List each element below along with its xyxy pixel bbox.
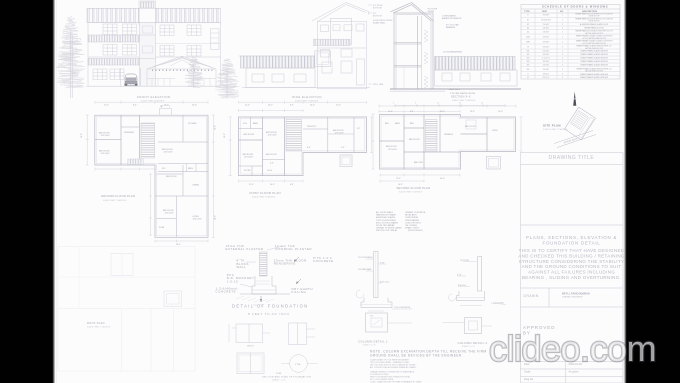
svg-text:BED ROOM: BED ROOM <box>409 139 420 141</box>
svg-text:10'-0": 10'-0" <box>192 105 197 107</box>
svg-text:4'0"x6'6": 4'0"x6'6" <box>543 37 550 39</box>
svg-text:12'0"x10'0": 12'0"x10'0" <box>268 135 278 137</box>
svg-text:RENDERING: RENDERING <box>274 262 296 266</box>
svg-text:3: 3 <box>562 24 563 26</box>
svg-text:1: 1 <box>562 20 563 22</box>
svg-text:EXTERNAL PLASTER: EXTERNAL PLASTER <box>226 247 264 251</box>
svg-text:D1: D1 <box>527 20 529 22</box>
svg-text:BALCONY: BALCONY <box>414 161 424 164</box>
svg-text:32: 32 <box>481 103 483 105</box>
svg-text:Dwg No: Dwg No <box>524 377 534 381</box>
svg-text:SIZE: SIZE <box>542 11 547 13</box>
svg-text:FOUNDATION DETAIL: FOUNDATION DETAIL <box>543 241 601 246</box>
svg-text:12'0"x10'0": 12'0"x10'0" <box>388 149 398 151</box>
svg-text:14'0"x12'0": 14'0"x12'0" <box>193 219 203 221</box>
svg-text:9"x9": 9"x9" <box>457 275 462 277</box>
svg-text:HARDWOOD FRAME: HARDWOOD FRAME <box>376 214 396 217</box>
svg-text:12'0"x10'0": 12'0"x10'0" <box>164 152 174 154</box>
svg-text:16'-0": 16'-0" <box>176 244 181 246</box>
svg-text:ROOM TINT AREAS: ROOM TINT AREAS <box>376 224 395 227</box>
svg-text:14'-0": 14'-0" <box>215 215 217 220</box>
svg-text:EVERYDAY GLAZED: EVERYDAY GLAZED <box>376 216 396 219</box>
svg-text:TERRACE: TERRACE <box>444 133 454 136</box>
svg-text:DETAIL OF FOUNDATION: DETAIL OF FOUNDATION <box>232 304 309 309</box>
svg-text:6'0"x6'6": 6'0"x6'6" <box>543 42 550 44</box>
svg-text:10'-0": 10'-0" <box>268 105 273 107</box>
svg-text:EXCL FLOOR & WATER: EXCL FLOOR & WATER <box>376 221 399 224</box>
svg-text:2: 2 <box>562 77 563 79</box>
svg-text:1 IN 60 RENDERING: 1 IN 60 RENDERING <box>443 52 462 54</box>
svg-text:clideo.com: clideo.com <box>489 328 656 369</box>
svg-text:W2: W2 <box>527 54 530 56</box>
svg-text:2'0"x4'6": 2'0"x4'6" <box>543 69 550 71</box>
svg-text:12'0"x10'0": 12'0"x10'0" <box>101 153 111 155</box>
svg-text:OPEN: OPEN <box>492 130 498 132</box>
svg-text:WIDTH: WIDTH <box>247 346 254 348</box>
svg-text:INTERNAL PLASTER: INTERNAL PLASTER <box>275 247 312 251</box>
svg-text:D2: D2 <box>527 24 529 26</box>
svg-text:2: 2 <box>562 42 563 44</box>
svg-text:8'-0": 8'-0" <box>290 105 294 107</box>
svg-text:As given: As given <box>569 370 580 374</box>
svg-text:SCHEDULE OF DOORS & WINDOWS: SCHEDULE OF DOORS & WINDOWS <box>542 5 608 9</box>
svg-text:OVER ON TOP: OVER ON TOP <box>588 21 599 23</box>
svg-text:8'-0": 8'-0" <box>410 111 414 113</box>
svg-text:10'-0": 10'-0" <box>81 133 83 138</box>
svg-text:STRUCTURE CONSIDERING THE STAB: STRUCTURE CONSIDERING THE STABILITY <box>519 259 625 264</box>
svg-text:2: 2 <box>562 28 563 30</box>
svg-text:TYPE: TYPE <box>524 11 530 13</box>
svg-text:2'6"x6'6": 2'6"x6'6" <box>543 28 550 30</box>
svg-text:CONCRETE: CONCRETE <box>313 259 334 263</box>
svg-text:4'0"x4': 4'0"x4' <box>267 170 273 172</box>
svg-text:ALL DOOR SHALL: ALL DOOR SHALL <box>376 211 394 214</box>
svg-text:PUJA: PUJA <box>159 226 165 229</box>
svg-text:CRM FRAMING: CRM FRAMING <box>405 219 420 222</box>
svg-text:8: 8 <box>415 103 416 105</box>
svg-text:SCALE 8 FEET TO AN INCH: SCALE 8 FEET TO AN INCH <box>252 195 276 198</box>
svg-text:ASBESTOS SHEETS: ASBESTOS SHEETS <box>442 17 462 20</box>
svg-text:AND CHECKED THIS BUILDING / RE: AND CHECKED THIS BUILDING / RETAINING <box>518 253 625 258</box>
svg-text:MR R.J. RAVICHANDRAN: MR R.J. RAVICHANDRAN <box>562 293 590 296</box>
svg-text:2: 2 <box>562 65 563 67</box>
svg-text:TILING: TILING <box>428 11 435 13</box>
svg-text:3'0"x6'6": 3'0"x6'6" <box>543 15 550 17</box>
svg-text:8'-0": 8'-0" <box>133 105 137 107</box>
svg-text:FIRST FLOOR THIS AT: FIRST FLOOR THIS AT <box>376 229 398 232</box>
svg-text:BLANK WALL: BLANK WALL <box>373 22 386 25</box>
svg-text:(2022 BUDGET): (2022 BUDGET) <box>408 230 423 232</box>
svg-text:12'-0": 12'-0" <box>396 178 401 180</box>
svg-text:W4: W4 <box>527 61 530 63</box>
svg-text:10'-0": 10'-0" <box>398 184 403 186</box>
svg-text:10'-0": 10'-0" <box>215 125 217 130</box>
svg-text:2: 2 <box>562 51 563 53</box>
svg-text:2'0"x4'6": 2'0"x4'6" <box>543 65 550 67</box>
svg-text:BOTTOM: BOTTOM <box>373 8 382 10</box>
svg-text:16'-0": 16'-0" <box>440 178 445 180</box>
svg-text:SCALE 8 FEET TO AN INCH: SCALE 8 FEET TO AN INCH <box>399 191 423 194</box>
svg-text:14'-0": 14'-0" <box>440 111 445 113</box>
svg-text:SECOND FLOOR PLAN: SECOND FLOOR PLAN <box>397 186 431 190</box>
svg-text:12'-0": 12'-0" <box>104 105 109 107</box>
svg-text:SCALE 8 FEET TO AN INCH: SCALE 8 FEET TO AN INCH <box>87 326 111 329</box>
svg-text:12'0"x10'0": 12'0"x10'0" <box>101 135 111 137</box>
svg-text:ALL COM SUIT BE ACCESSED WHEN: ALL COM SUIT BE ACCESSED WHEN AT CHARLY <box>370 366 417 369</box>
svg-text:BED ROOM: BED ROOM <box>465 126 476 128</box>
svg-text:AND THE GROUND CONDITIONS TO S: AND THE GROUND CONDITIONS TO SUIT <box>522 264 622 269</box>
svg-text:SECTION X-X: SECTION X-X <box>451 95 471 99</box>
svg-text:16: 16 <box>437 103 439 105</box>
svg-text:12'0"x10'0": 12'0"x10'0" <box>165 213 175 215</box>
svg-text:1'6"x1'6": 1'6"x1'6" <box>543 73 550 75</box>
svg-text:8'x8'COL: 8'x8'COL <box>458 285 467 287</box>
svg-text:OVER ON TOP: OVER ON TOP <box>588 16 599 18</box>
svg-text:COLUMN DETAIL 2: COLUMN DETAIL 2 <box>458 341 488 345</box>
svg-text:PLANS, SECTIONS, ELEVATION &: PLANS, SECTIONS, ELEVATION & <box>526 235 617 240</box>
svg-text:DW1: DW1 <box>526 37 530 39</box>
svg-text:SCALE 1" = 1'-0": SCALE 1" = 1'-0" <box>462 345 475 348</box>
svg-text:BEARING: BEARING <box>446 26 455 29</box>
svg-text:AGAINST ALL FAILURES INCLUDING: AGAINST ALL FAILURES INCLUDING <box>528 270 615 275</box>
svg-text:WALL: WALL <box>237 265 247 269</box>
svg-text:4: 4 <box>562 73 563 75</box>
svg-text:STILL LINE: STILL LINE <box>373 84 384 86</box>
svg-text:10'-0": 10'-0" <box>270 184 275 186</box>
svg-text:MIX AT ANTI: MIX AT ANTI <box>405 214 417 217</box>
svg-text:SCALE 40 FEET TO AN INCH: SCALE 40 FEET TO AN INCH <box>543 128 568 131</box>
svg-text:SCALE 8 FEET TO AN INCH: SCALE 8 FEET TO AN INCH <box>103 199 127 202</box>
svg-text:2: 2 <box>562 37 563 39</box>
svg-text:1:3:6 CONCRETE: 1:3:6 CONCRETE <box>394 307 411 309</box>
svg-text:COLUMN DETAIL 1: COLUMN DETAIL 1 <box>358 339 388 343</box>
svg-text:TOILET6'0": TOILET6'0" <box>307 126 317 128</box>
svg-text:W5: W5 <box>527 65 530 67</box>
svg-text:W6: W6 <box>527 69 530 71</box>
svg-text:SCALE 1" = 1'-0": SCALE 1" = 1'-0" <box>272 379 286 382</box>
svg-text:GROUND SHALL BE DEVICES BY THE: GROUND SHALL BE DEVICES BY THE ENGINEER. <box>370 353 463 357</box>
svg-text:3'. 4'x4'. 6': 3'. 4'x4'. 6' <box>542 58 550 60</box>
svg-text:12'-0": 12'-0" <box>388 111 393 113</box>
svg-text:STORE: STORE <box>244 170 251 172</box>
svg-text:BED: BED <box>410 123 415 125</box>
svg-text:SCALE 8 FEET TO AN INCH: SCALE 8 FEET TO AN INCH <box>452 99 476 102</box>
svg-text:1:5:10: 1:5:10 <box>227 279 238 283</box>
svg-text:DESCRIPTION: DESCRIPTION <box>582 11 597 13</box>
svg-text:12'-0": 12'-0" <box>245 105 250 107</box>
svg-text:D3: D3 <box>527 28 529 30</box>
svg-text:W.C: W.C <box>162 168 166 170</box>
svg-text:2'6"x1'-6": 2'6"x1'-6" <box>542 77 549 79</box>
svg-text:BATH: BATH <box>188 167 194 170</box>
svg-text:12'0"x10'0": 12'0"x10'0" <box>244 157 254 159</box>
svg-text:NO: NO <box>560 11 564 13</box>
svg-text:BATH: BATH <box>253 122 259 125</box>
svg-text:8'-0": 8'-0" <box>307 147 311 149</box>
svg-text:2'6"x6'6"x6'6": 2'6"x6'6"x6'6" <box>541 20 551 22</box>
svg-text:BOTTOM: BOTTOM <box>373 16 382 18</box>
svg-text:W3: W3 <box>527 58 530 60</box>
svg-text:D4: D4 <box>527 32 529 34</box>
svg-text:FILLING: FILLING <box>292 290 307 294</box>
svg-text:KITCHEN: KITCHEN <box>188 123 197 125</box>
svg-text:SITE PLAN: SITE PLAN <box>543 124 561 128</box>
svg-text:10'-0": 10'-0" <box>164 105 169 107</box>
svg-text:2: 2 <box>562 69 563 71</box>
svg-text:BED ROOM: BED ROOM <box>386 146 397 148</box>
svg-text:24: 24 <box>459 103 461 105</box>
svg-text:2'6"x6'6": 2'6"x6'6" <box>543 32 550 34</box>
svg-text:1'6"CONC: 1'6"CONC <box>460 260 470 262</box>
svg-text:DRESSING: DRESSING <box>124 132 134 134</box>
svg-text:4'-6": 4'-6" <box>270 163 274 165</box>
svg-text:8'-0": 8'-0" <box>290 184 294 186</box>
svg-text:6'0"x4'6": 6'0"x4'6" <box>543 47 550 49</box>
svg-text:10'-0": 10'-0" <box>310 105 315 107</box>
svg-text:1'6"CONCRETE: 1'6"CONCRETE <box>358 257 373 259</box>
svg-text:TRAINED ENGINEER: TRAINED ENGINEER <box>562 296 583 299</box>
svg-text:3'0"x4'6": 3'0"x4'6" <box>543 61 550 63</box>
svg-text:1'6": 1'6" <box>370 316 374 318</box>
svg-text:10'-0": 10'-0" <box>470 111 475 113</box>
svg-text:12'0"x10'0": 12'0"x10'0" <box>335 133 345 135</box>
svg-text:0: 0 <box>393 103 394 105</box>
svg-text:GROUND FLOOR PLAN: GROUND FLOOR PLAN <box>101 194 135 198</box>
svg-text:2: 2 <box>562 58 563 60</box>
svg-text:BEARING , SLIDING AND OVERTURN: BEARING , SLIDING AND OVERTURNING. <box>522 275 621 280</box>
svg-text:W1: W1 <box>527 51 530 53</box>
svg-text:SIDE ELEVATION: SIDE ELEVATION <box>292 95 322 99</box>
svg-text:FIRST FLOOR PLAN: FIRST FLOOR PLAN <box>250 191 281 195</box>
svg-text:12'-0": 12'-0" <box>336 105 341 107</box>
svg-text:2'6"x6'6": 2'6"x6'6" <box>543 24 550 26</box>
svg-text:5'0": 5'0" <box>357 128 360 130</box>
svg-text:CONCRETE: CONCRETE <box>216 290 237 294</box>
svg-text:DINING: DINING <box>193 184 200 186</box>
svg-text:PLAN: PLAN <box>276 372 282 375</box>
svg-text:1: 1 <box>562 15 563 17</box>
svg-text:TERRAC TO WORK CARED: TERRAC TO WORK CARED <box>376 227 402 230</box>
svg-text:8 FEET TO AN INCH: 8 FEET TO AN INCH <box>248 312 290 316</box>
svg-text:12'-0": 12'-0" <box>249 184 254 186</box>
svg-text:THIS IS TO CERTIFY THAT HAVE: THIS IS TO CERTIFY THAT HAVE DESIGNED <box>519 248 625 253</box>
svg-text:4: 4 <box>562 54 563 56</box>
svg-text:DW2: DW2 <box>526 42 530 44</box>
svg-text:BED: BED <box>385 123 390 125</box>
svg-text:2: 2 <box>562 61 563 63</box>
svg-text:BED ROOM: BED ROOM <box>244 134 255 136</box>
svg-text:9"DIA: 9"DIA <box>295 363 301 366</box>
svg-text:DRAWN: DRAWN <box>524 294 539 298</box>
svg-text:MAIN WALL: MAIN WALL <box>449 88 461 91</box>
svg-text:DRAW / TIGHT: DRAW / TIGHT <box>405 227 419 230</box>
svg-text:8'x8' Col-n: 8'x8' Col-n <box>380 282 389 284</box>
svg-text:10'-0": 10'-0" <box>498 111 503 113</box>
svg-text:COLUMN BAR: COLUMN BAR <box>358 268 372 271</box>
svg-text:BATH: BATH <box>395 122 401 125</box>
svg-text:10'-0": 10'-0" <box>224 133 226 138</box>
svg-text:ROOF PLAN: ROOF PLAN <box>87 321 105 325</box>
svg-text:1: 1 <box>562 32 563 34</box>
svg-text:SECTION AND PLAN OF FOUNDATION: SECTION AND PLAN OF FOUNDATION <box>262 376 311 379</box>
svg-text:4'0"x4'6": 4'0"x4'6" <box>543 54 550 56</box>
svg-text:FRONT ELEVATION: FRONT ELEVATION <box>137 95 171 99</box>
svg-text:6: 6 <box>562 47 563 49</box>
svg-text:BED ROOM: BED ROOM <box>166 176 177 178</box>
svg-text:1:3:6 CONC: 1:3:6 CONC <box>493 303 504 305</box>
svg-text:5'0"x4'6": 5'0"x4'6" <box>543 51 550 53</box>
svg-text:DRAWING TITLE: DRAWING TITLE <box>549 155 595 161</box>
svg-text:3'-0": 3'-0" <box>341 147 345 149</box>
svg-text:4'0"x: 4'0"x <box>243 123 247 125</box>
svg-text:9"x9": 9"x9" <box>380 263 385 265</box>
svg-text:V1: V1 <box>527 77 529 79</box>
svg-text:Scale: Scale <box>524 370 531 374</box>
svg-text:BED ROOM: BED ROOM <box>266 154 277 156</box>
svg-text:SCALE 1" = 1'-0": SCALE 1" = 1'-0" <box>363 344 376 347</box>
